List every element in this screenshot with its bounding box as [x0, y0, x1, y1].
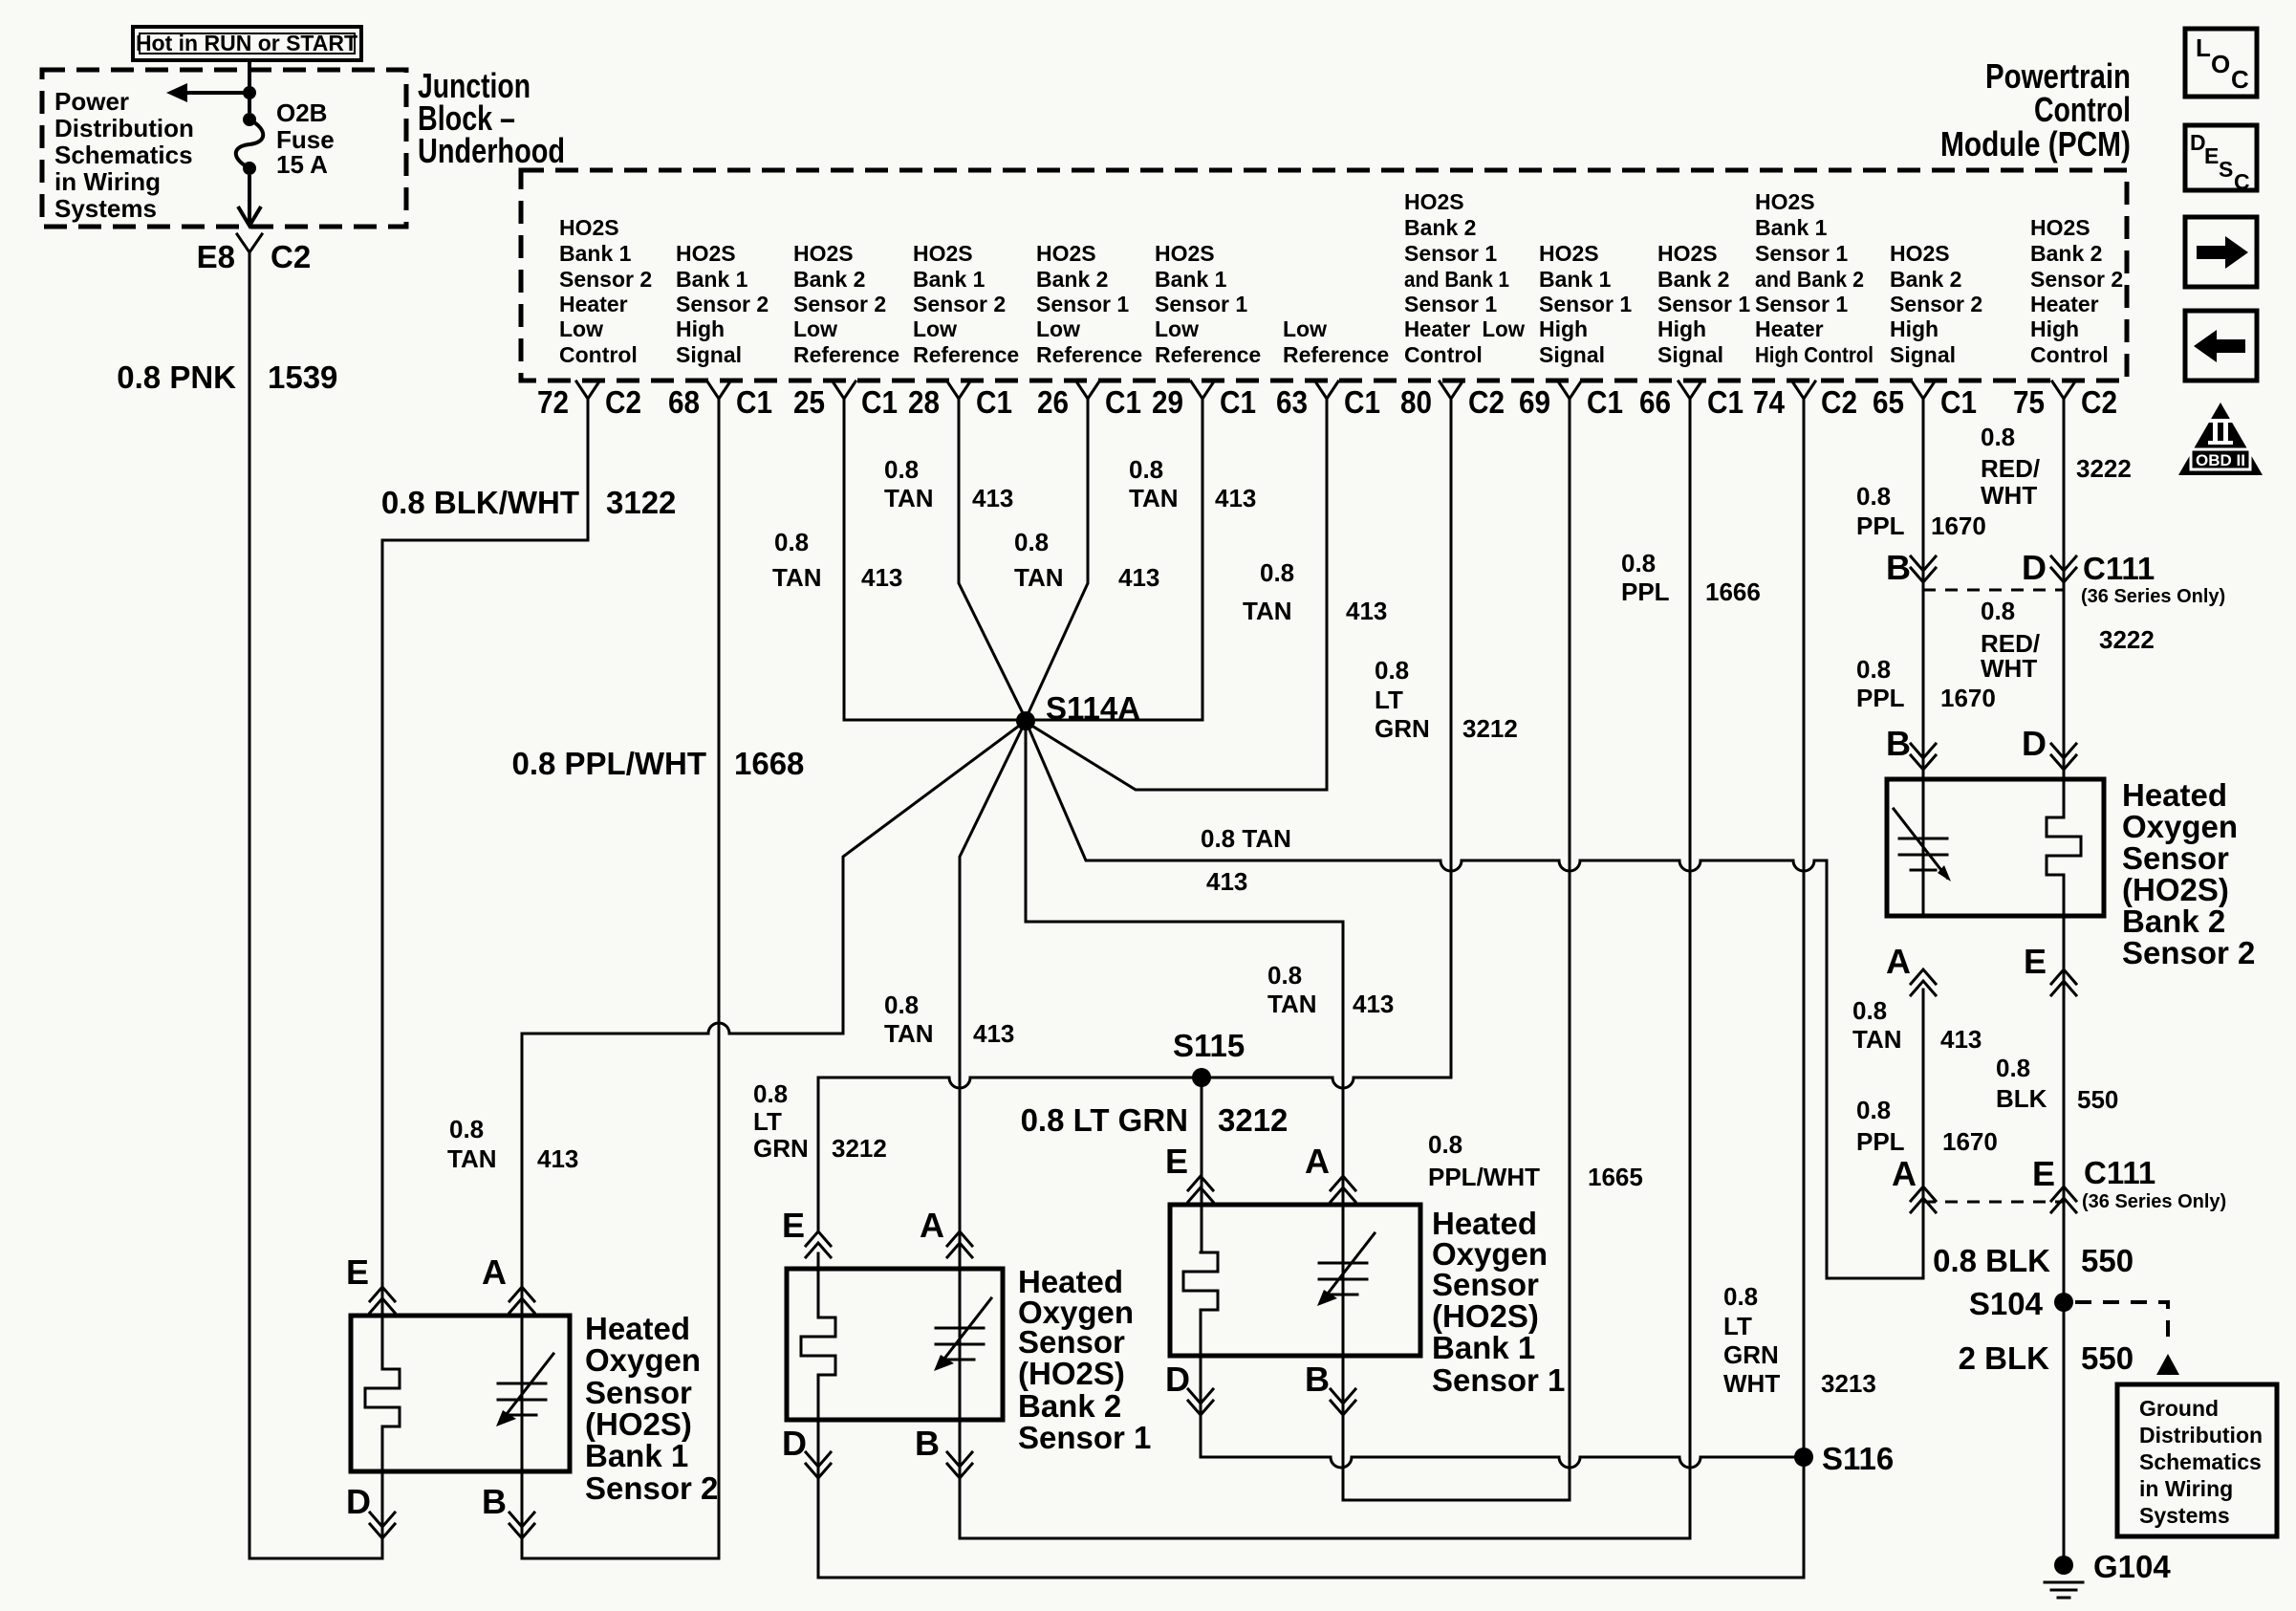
svg-text:550: 550 — [2081, 1243, 2134, 1278]
svg-text:63: 63 — [1276, 384, 1308, 420]
svg-text:Reference: Reference — [793, 342, 899, 367]
svg-text:0.8: 0.8 — [1260, 558, 1294, 587]
connector pin 68 C1 — [668, 381, 772, 420]
svg-text:A: A — [1886, 942, 1911, 981]
svg-text:C2: C2 — [271, 239, 311, 274]
svg-text:HO2S: HO2S — [1657, 241, 1718, 266]
connector pin 66 C1 — [1639, 381, 1744, 420]
icon box LOC — [2185, 29, 2257, 97]
svg-text:D: D — [782, 1424, 807, 1463]
wire pin28 to splice S114A — [959, 410, 1026, 719]
connector pin 25 C1 — [793, 381, 898, 420]
label 0.8 BLK 550 upper — [1996, 1054, 2118, 1114]
wire S115 down to E pin of HO2S B1S1 — [1201, 1078, 1804, 1468]
fuse O2B 15 A — [236, 98, 335, 179]
svg-text:Sensor 1: Sensor 1 — [1404, 292, 1497, 316]
svg-text:Oxygen: Oxygen — [585, 1342, 701, 1378]
wire pin65 PPL to B pin of HO2S B2S2 — [1922, 410, 1925, 779]
svg-text:Distribution: Distribution — [2139, 1423, 2263, 1448]
svg-text:Low: Low — [793, 316, 837, 341]
pin letter D middle sensor with chevron — [782, 1424, 831, 1478]
pin letter E middle sensor with chevron — [782, 1206, 831, 1257]
PCM pin label column 8 HO2S Bank 2 Sensor 1 and Bank 1 Sensor 1 Heater Low Control — [1404, 189, 1525, 367]
svg-text:3213: 3213 — [1821, 1369, 1876, 1398]
label 0.8 RED/WHT 3222 lower — [1981, 597, 2155, 683]
label 0.8 LT GRN 3212 on E mid wire — [753, 1079, 887, 1163]
svg-text:C1: C1 — [1105, 384, 1141, 420]
connector C111 upper dashed line — [1923, 551, 2225, 607]
wire arrow to Power Distribution — [166, 83, 256, 102]
svg-text:0.8 TAN: 0.8 TAN — [1201, 824, 1291, 853]
svg-text:TAN: TAN — [1243, 597, 1292, 625]
svg-text:Schematics: Schematics — [54, 141, 193, 169]
svg-text:0.8: 0.8 — [1856, 655, 1891, 684]
svg-text:Sensor: Sensor — [585, 1375, 692, 1410]
dashed box Power Distribution Junction Block — [42, 70, 406, 227]
svg-text:C1: C1 — [976, 384, 1012, 420]
svg-text:Bank 2: Bank 2 — [1657, 267, 1729, 292]
svg-text:HO2S: HO2S — [559, 215, 619, 240]
svg-text:28: 28 — [908, 384, 940, 420]
svg-text:C: C — [2234, 169, 2250, 194]
svg-text:Sensor 1: Sensor 1 — [1432, 1362, 1565, 1398]
svg-text:550: 550 — [2077, 1085, 2118, 1114]
svg-text:Bank 1: Bank 1 — [585, 1438, 688, 1473]
svg-text:Reference: Reference — [1036, 342, 1142, 367]
svg-text:413: 413 — [1206, 867, 1247, 896]
svg-text:0.8: 0.8 — [753, 1079, 788, 1108]
wire S114A to A pin of HO2S B1S2 with hop over pin68 wire — [522, 721, 1026, 1558]
PCM pin label column 11 HO2S Bank 1 Sensor 1 and Bank 2 Sensor 1 Heater High Control — [1755, 189, 1874, 367]
svg-text:C111: C111 — [2083, 551, 2155, 586]
svg-text:0.8 LT GRN: 0.8 LT GRN — [1021, 1102, 1188, 1138]
svg-text:Sensor 1: Sensor 1 — [1036, 292, 1129, 316]
svg-text:3122: 3122 — [606, 485, 676, 520]
label Heated Oxygen Sensor (HO2S) Bank 1 Sensor 2 — [585, 1311, 718, 1506]
svg-text:LT: LT — [753, 1107, 782, 1136]
svg-text:PPL: PPL — [1856, 1127, 1905, 1156]
svg-text:Bank 1: Bank 1 — [1155, 267, 1227, 292]
svg-text:O: O — [2211, 50, 2230, 78]
svg-text:0.8: 0.8 — [1014, 528, 1049, 556]
svg-text:Low: Low — [1155, 316, 1199, 341]
label Heated Oxygen Sensor (HO2S) Bank 1 Sensor 1 — [1432, 1206, 1565, 1398]
wire E pin B2S2 BLK 550 down to G104 — [2063, 916, 2066, 1557]
svg-text:Low: Low — [559, 316, 603, 341]
svg-text:PPL/WHT: PPL/WHT — [1428, 1163, 1540, 1191]
svg-text:Bank 2: Bank 2 — [2122, 903, 2225, 939]
svg-text:0.8: 0.8 — [449, 1115, 484, 1143]
wire pin63 to splice S114A — [1026, 410, 1327, 790]
PCM pin label column 7 Low Reference — [1283, 316, 1389, 367]
svg-text:15 A: 15 A — [276, 150, 328, 179]
pin letter A at C111 lower with chevron — [1892, 1154, 1936, 1212]
wire from Hot box down through fuse — [238, 60, 261, 226]
heater element B1S1 — [1183, 1252, 1218, 1310]
label 0.8 RED/WHT 3222 upper — [1981, 423, 2132, 510]
svg-text:A: A — [1305, 1142, 1330, 1181]
svg-text:Sensor 1: Sensor 1 — [1404, 241, 1497, 266]
pin letter E at C111 lower with chevron — [2032, 1154, 2076, 1212]
label 0.8 LT GRN 3212 at S115 — [1021, 1102, 1289, 1138]
svg-text:C2: C2 — [2081, 384, 2117, 420]
svg-text:OBD II: OBD II — [2196, 451, 2245, 469]
svg-text:C1: C1 — [861, 384, 898, 420]
PCM pin label column 9 HO2S Bank 1 Sensor 1 High Signal — [1539, 241, 1632, 367]
svg-text:0.8 BLK/WHT: 0.8 BLK/WHT — [381, 485, 579, 520]
svg-text:High: High — [676, 316, 725, 341]
svg-text:Bank 1: Bank 1 — [1539, 267, 1612, 292]
splice S104 — [1969, 1286, 2073, 1321]
pin letter D upper with chevron — [2022, 548, 2076, 587]
svg-text:D: D — [2022, 548, 2047, 587]
svg-text:Bank 2: Bank 2 — [1018, 1388, 1121, 1424]
svg-text:S115: S115 — [1173, 1028, 1245, 1063]
svg-text:TAN: TAN — [772, 563, 822, 592]
svg-text:0.8 PPL/WHT: 0.8 PPL/WHT — [511, 746, 706, 781]
svg-text:D: D — [346, 1482, 371, 1521]
svg-text:0.8: 0.8 — [1375, 656, 1409, 685]
svg-text:Power: Power — [54, 87, 129, 116]
PCM pin label column 2 HO2S Bank 1 Sensor 2 High Signal — [676, 241, 769, 367]
wire 0.8 PNK 1539 from E8 to sensor D pin — [117, 266, 382, 1558]
pin letter A below B2S2 with chevron — [1886, 942, 1936, 995]
svg-text:GRN: GRN — [1723, 1340, 1779, 1369]
svg-text:Control: Control — [2034, 90, 2131, 129]
svg-text:Heated: Heated — [585, 1311, 690, 1346]
svg-text:A: A — [1892, 1154, 1917, 1193]
svg-text:Sensor 1: Sensor 1 — [1755, 292, 1848, 316]
wire pin29 to splice S114A — [1026, 410, 1202, 720]
svg-text:C1: C1 — [1344, 384, 1380, 420]
svg-text:L: L — [2196, 33, 2211, 62]
svg-text:1670: 1670 — [1940, 684, 1996, 712]
label 0.8 TAN 413 right sensor A — [1267, 961, 1394, 1018]
wire pin25 to splice S114A — [844, 410, 1026, 720]
svg-text:S: S — [2219, 157, 2233, 182]
svg-text:Sensor 1: Sensor 1 — [1657, 292, 1750, 316]
svg-text:A: A — [482, 1252, 507, 1292]
label 0.8 LT GRN WHT 3213 pin74 — [1723, 1282, 1876, 1398]
connector pin 69 C1 — [1519, 381, 1623, 420]
svg-text:and Bank 2: and Bank 2 — [1755, 267, 1864, 292]
svg-text:B: B — [1305, 1360, 1330, 1399]
sensor box HO2S Bank 1 Sensor 1 — [1170, 1205, 1420, 1356]
svg-text:Hot in RUN or START: Hot in RUN or START — [136, 31, 357, 55]
svg-text:Sensor 1: Sensor 1 — [1539, 292, 1632, 316]
pin letter D left sensor with chevron — [346, 1482, 395, 1538]
svg-text:Control: Control — [2030, 342, 2109, 367]
svg-text:413: 413 — [973, 1019, 1014, 1048]
PCM pin label column 6 HO2S Bank 1 Sensor 1 Low Reference — [1155, 241, 1261, 367]
svg-text:PPL: PPL — [1856, 512, 1905, 540]
svg-text:Low: Low — [1283, 316, 1327, 341]
ground G104 — [2045, 1549, 2171, 1598]
svg-text:0.8 BLK: 0.8 BLK — [1933, 1243, 2050, 1278]
svg-text:1665: 1665 — [1588, 1163, 1643, 1191]
svg-text:C111: C111 — [2084, 1155, 2155, 1190]
svg-text:Heated: Heated — [2122, 777, 2227, 813]
svg-text:0.8: 0.8 — [1428, 1130, 1462, 1159]
svg-text:TAN: TAN — [447, 1144, 497, 1173]
label 0.8 PPL/WHT 1668 — [511, 746, 804, 781]
svg-text:E: E — [1165, 1142, 1188, 1181]
svg-text:Sensor 2: Sensor 2 — [1890, 292, 1982, 316]
svg-text:O2B: O2B — [276, 98, 327, 127]
svg-text:C1: C1 — [1220, 384, 1256, 420]
svg-text:Signal: Signal — [1539, 342, 1605, 367]
dashed box PCM — [521, 170, 2127, 381]
svg-text:Schematics: Schematics — [2139, 1449, 2262, 1474]
svg-text:Bank 2: Bank 2 — [1036, 267, 1108, 292]
heater element B2S2 — [2047, 817, 2081, 875]
svg-text:HO2S: HO2S — [676, 241, 736, 266]
svg-text:Sensor 1: Sensor 1 — [1018, 1420, 1151, 1455]
svg-text:HO2S: HO2S — [913, 241, 973, 266]
svg-text:1670: 1670 — [1942, 1127, 1998, 1156]
svg-text:Reference: Reference — [1283, 342, 1389, 367]
svg-text:Sensor 2: Sensor 2 — [793, 292, 886, 316]
svg-text:Signal: Signal — [1890, 342, 1956, 367]
svg-text:D: D — [1165, 1360, 1190, 1399]
wire pin80 LT GRN to splice S115 with hops — [818, 410, 1451, 1231]
svg-text:TAN: TAN — [1014, 563, 1064, 592]
connector pin 74 C2 — [1753, 381, 1857, 420]
svg-text:High: High — [2030, 316, 2079, 341]
connector pin 80 C2 — [1400, 381, 1505, 420]
PCM pin label column 4 HO2S Bank 1 Sensor 2 Low Reference — [913, 241, 1019, 367]
svg-text:HO2S: HO2S — [1539, 241, 1599, 266]
svg-text:C2: C2 — [1821, 384, 1857, 420]
svg-text:26: 26 — [1037, 384, 1069, 420]
svg-text:75: 75 — [2013, 384, 2045, 420]
svg-text:0.8: 0.8 — [1621, 549, 1656, 577]
heater element B2S1 — [801, 1317, 835, 1375]
svg-text:S114A: S114A — [1046, 690, 1140, 726]
PCM pin label column 5 HO2S Bank 2 Sensor 1 Low Reference — [1036, 241, 1142, 367]
label 0.8 TAN 413 long run — [1201, 824, 1291, 896]
label 0.8 TAN 413 middle sensor A — [884, 991, 1014, 1048]
pin letter A right sensor with chevron — [1305, 1142, 1355, 1202]
splice S115 — [1173, 1028, 1245, 1087]
svg-text:Bank 1: Bank 1 — [1755, 215, 1828, 240]
PCM pin label column 13 HO2S Bank 2 Sensor 2 Heater High Control — [2030, 215, 2123, 367]
svg-text:C1: C1 — [1940, 384, 1977, 420]
svg-text:413: 413 — [861, 563, 902, 592]
svg-text:0.8: 0.8 — [1981, 597, 2015, 625]
svg-text:0.8: 0.8 — [774, 528, 809, 556]
svg-text:GRN: GRN — [1375, 714, 1430, 743]
pin letter D right sensor with chevron — [1165, 1360, 1213, 1415]
svg-text:Sensor 2: Sensor 2 — [2122, 935, 2255, 970]
label 0.8 TAN 413 pin63 — [1243, 558, 1387, 625]
pin letter D lower with chevron — [2022, 724, 2076, 770]
svg-text:69: 69 — [1519, 384, 1550, 420]
splice S116 — [1794, 1441, 1894, 1476]
svg-text:Sensor: Sensor — [2122, 840, 2229, 876]
svg-text:0.8: 0.8 — [1129, 455, 1163, 484]
PCM pin label column 1 HO2S Bank 1 Sensor 2 Heater Low Control — [559, 215, 652, 367]
svg-text:Sensor: Sensor — [1018, 1324, 1125, 1360]
svg-text:0.8: 0.8 — [1856, 482, 1891, 511]
svg-text:Low: Low — [1036, 316, 1080, 341]
label 0.8 TAN 413 below B2S2 — [1852, 996, 1982, 1054]
label 0.8 TAN 413 left sensor A — [447, 1115, 578, 1173]
svg-text:0.8: 0.8 — [1981, 423, 2015, 451]
svg-text:RED/: RED/ — [1981, 454, 2040, 483]
svg-text:550: 550 — [2081, 1340, 2134, 1376]
svg-text:S116: S116 — [1822, 1441, 1894, 1476]
svg-text:E: E — [346, 1252, 369, 1292]
svg-text:Oxygen: Oxygen — [2122, 809, 2238, 844]
label 0.8 PPL 1666 pin66 — [1621, 549, 1761, 606]
pin letter A left sensor with chevron — [482, 1252, 534, 1313]
connector pin 26 C1 — [1037, 381, 1141, 420]
svg-text:S104: S104 — [1969, 1286, 2044, 1321]
svg-text:65: 65 — [1873, 384, 1904, 420]
PCM pin label column 3 HO2S Bank 2 Sensor 2 Low Reference — [793, 241, 899, 367]
svg-text:3222: 3222 — [2076, 454, 2132, 483]
svg-text:TAN: TAN — [1267, 990, 1317, 1018]
svg-text:TAN: TAN — [1129, 484, 1179, 512]
connector pin 75 C2 — [2013, 381, 2117, 420]
svg-text:E: E — [2204, 143, 2219, 168]
svg-text:(HO2S): (HO2S) — [585, 1406, 692, 1442]
connector pin 29 C1 — [1152, 381, 1256, 420]
svg-text:2 BLK: 2 BLK — [1959, 1340, 2050, 1376]
svg-text:Module (PCM): Module (PCM) — [1940, 124, 2131, 163]
svg-text:Bank 2: Bank 2 — [793, 267, 865, 292]
svg-text:C2: C2 — [605, 384, 641, 420]
label Heated Oxygen Sensor (HO2S) Bank 2 Sensor 2 — [2122, 777, 2255, 970]
svg-text:BLK: BLK — [1996, 1084, 2047, 1113]
svg-text:HO2S: HO2S — [793, 241, 854, 266]
wire S114A TAN 413 long run to A pin of HO2S B2S2 with hops — [1026, 721, 1923, 1278]
svg-text:413: 413 — [1118, 563, 1159, 592]
svg-text:D: D — [2022, 724, 2047, 763]
svg-text:C1: C1 — [736, 384, 772, 420]
svg-text:413: 413 — [537, 1144, 578, 1173]
label 0.8 TAN 413 pin26 — [1014, 528, 1159, 592]
svg-text:(HO2S): (HO2S) — [1432, 1298, 1539, 1334]
label 2 BLK 550 — [1959, 1340, 2134, 1376]
svg-text:WHT: WHT — [1723, 1369, 1780, 1398]
svg-text:(36 Series Only): (36 Series Only) — [2081, 586, 2225, 607]
wire pin75 RED/WHT to D pin of HO2S B2S2 — [2063, 410, 2066, 779]
label 0.8 LT GRN 3212 pin80 — [1375, 656, 1518, 743]
pin letter B upper with chevron — [1886, 548, 1936, 587]
svg-text:0.8: 0.8 — [1723, 1282, 1758, 1311]
svg-text:Systems: Systems — [54, 194, 157, 223]
svg-text:1666: 1666 — [1705, 577, 1761, 606]
svg-text:Heater: Heater — [2030, 292, 2099, 316]
svg-text:C1: C1 — [1587, 384, 1623, 420]
svg-text:1668: 1668 — [734, 746, 804, 781]
svg-text:68: 68 — [668, 384, 700, 420]
svg-text:Systems: Systems — [2139, 1503, 2230, 1528]
icon box left arrow — [2185, 311, 2257, 381]
svg-text:Sensor 2: Sensor 2 — [913, 292, 1006, 316]
box Hot in RUN or START — [133, 27, 361, 60]
svg-text:C: C — [2231, 65, 2249, 94]
connector pin 63 C1 — [1276, 381, 1380, 420]
svg-text:1539: 1539 — [268, 359, 337, 395]
pin letter B lower with chevron — [1886, 724, 1936, 770]
svg-text:0.8: 0.8 — [1856, 1096, 1891, 1124]
svg-text:in Wiring: in Wiring — [54, 167, 161, 196]
svg-text:Bank 1: Bank 1 — [676, 267, 748, 292]
icon OBD II triangle — [2178, 403, 2263, 475]
svg-text:0.8 PNK: 0.8 PNK — [117, 359, 236, 395]
svg-text:Sensor 1: Sensor 1 — [1155, 292, 1247, 316]
label 0.8 PPL/WHT 1665 pin69 — [1428, 1130, 1643, 1191]
wire pin26 to splice S114A — [1026, 410, 1088, 719]
pin letter A middle sensor with chevron — [920, 1206, 972, 1257]
pin letter E left sensor with chevron — [346, 1252, 395, 1313]
svg-text:Distribution: Distribution — [54, 114, 194, 142]
dashed reference from S104 to Ground Distribution — [2075, 1302, 2179, 1375]
svg-text:3212: 3212 — [1462, 714, 1518, 743]
svg-text:Control: Control — [559, 342, 638, 367]
svg-text:TAN: TAN — [884, 1019, 934, 1048]
svg-text:HO2S: HO2S — [1036, 241, 1096, 266]
svg-text:413: 413 — [1346, 597, 1387, 625]
label 0.8 BLK/WHT 3122 — [381, 485, 677, 520]
svg-text:B: B — [1886, 724, 1911, 763]
label Junction Block Underhood — [418, 66, 565, 170]
svg-text:HO2S: HO2S — [2030, 215, 2090, 240]
svg-text:GRN: GRN — [753, 1134, 809, 1163]
svg-text:Sensor 2: Sensor 2 — [2030, 267, 2123, 292]
svg-text:Reference: Reference — [913, 342, 1019, 367]
svg-text:E8: E8 — [197, 239, 235, 274]
svg-text:3212: 3212 — [1218, 1102, 1288, 1138]
heater element B1S2 — [365, 1369, 400, 1426]
svg-text:0.8: 0.8 — [1267, 961, 1302, 990]
label 0.8 PPL 1670 lower — [1856, 655, 1996, 712]
svg-text:C1: C1 — [1707, 384, 1744, 420]
svg-text:25: 25 — [793, 384, 825, 420]
svg-text:C2: C2 — [1468, 384, 1505, 420]
svg-text:Bank 1: Bank 1 — [913, 267, 986, 292]
sensor box HO2S Bank 2 Sensor 2 — [1887, 779, 2104, 916]
sensing element B1S2 — [496, 1354, 553, 1426]
wire D pin B2S1 to S116 bottom — [818, 1253, 1804, 1578]
connector pin 28 C1 — [908, 381, 1012, 420]
svg-text:413: 413 — [1940, 1025, 1982, 1054]
svg-text:TAN: TAN — [1852, 1025, 1902, 1054]
svg-text:Bank 2: Bank 2 — [1890, 267, 1961, 292]
svg-text:Bank 2: Bank 2 — [2030, 241, 2102, 266]
svg-text:WHT: WHT — [1981, 654, 2037, 683]
sensing element B2S1 — [934, 1298, 991, 1371]
svg-text:Bank 2: Bank 2 — [1404, 215, 1476, 240]
svg-text:Bank 1: Bank 1 — [1432, 1330, 1535, 1365]
svg-text:Sensor: Sensor — [1432, 1267, 1539, 1302]
wire S114A to A pin of HO2S B1S1 and pin69 via bottom run — [1026, 410, 1570, 1500]
svg-text:(HO2S): (HO2S) — [2122, 872, 2229, 907]
svg-text:LT: LT — [1375, 686, 1403, 714]
svg-text:A: A — [920, 1206, 944, 1245]
svg-text:in Wiring: in Wiring — [2139, 1476, 2233, 1501]
connector pin 65 C1 — [1873, 381, 1977, 420]
svg-text:PPL: PPL — [1621, 577, 1670, 606]
svg-text:Heater: Heater — [1755, 316, 1824, 341]
svg-text:Reference: Reference — [1155, 342, 1261, 367]
svg-text:(HO2S): (HO2S) — [1018, 1356, 1125, 1391]
pin letter B middle sensor with chevron — [915, 1424, 972, 1478]
PCM pin label column 12 HO2S Bank 2 Sensor 2 High Signal — [1890, 241, 1982, 367]
